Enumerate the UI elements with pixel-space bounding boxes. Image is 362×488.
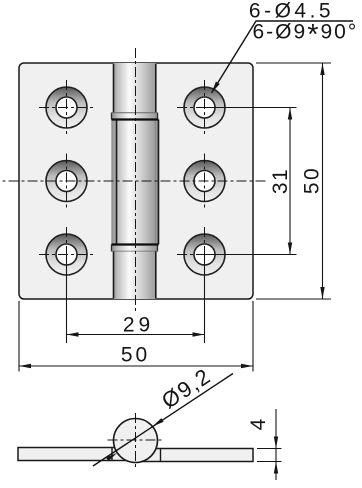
long middle row centerline — [2, 180, 267, 182]
svg-text:6-Ø9*90°: 6-Ø9*90° — [253, 19, 359, 51]
countersunk hole H4 (mid-right) — [184, 161, 225, 202]
svg-text:4: 4 — [247, 418, 270, 431]
dimension 31: extension line top — [205, 107, 297, 109]
barrel bottom collar — [112, 245, 158, 252]
svg-text:50: 50 — [301, 166, 324, 194]
dimension 50 right: extension line bottom — [256, 298, 331, 300]
hinge plate (top view, 50x50 leaf pair) — [19, 63, 253, 299]
hinge barrel bottom knuckle — [114, 252, 156, 300]
dimension 4: extension line bottom — [257, 461, 282, 463]
dimension 50 bottom: dimension line — [19, 365, 253, 367]
svg-text:6-Ø4.5: 6-Ø4.5 — [249, 0, 334, 23]
dimension 50 right: arrow down — [320, 287, 324, 299]
leader line for hole callout — [212, 21, 257, 93]
leader underline — [256, 20, 354, 22]
side view circle centerline vertical — [135, 413, 137, 468]
dimension 29: extension line right — [204, 255, 206, 343]
countersunk hole H6 (bottom-right) — [184, 234, 225, 275]
dimension 50 bottom: extension line left — [18, 301, 20, 372]
svg-text:31: 31 — [269, 168, 292, 194]
svg-text:50: 50 — [121, 344, 150, 367]
dimension 50 right: dimension line — [322, 63, 324, 299]
centerline horizontal H5 — [39, 254, 94, 256]
dimension 29: arrow left — [67, 332, 79, 336]
dimension 4: extension line top — [257, 448, 282, 450]
dimension 31: arrow up — [288, 108, 292, 120]
dimension 4: arrow up — [274, 462, 278, 474]
side view left leaf — [18, 448, 136, 461]
dimension 31: extension line bottom — [205, 254, 297, 256]
dimension 31: dimension line — [289, 108, 291, 255]
dimension 29: extension line left — [66, 255, 68, 343]
knuckle joint line lower — [112, 243, 159, 245]
centerline horizontal H6 — [177, 254, 232, 256]
middle knuckle (offset) — [112, 120, 159, 245]
leader arrowhead d9,2 upper — [153, 418, 164, 426]
barrel top collar — [112, 113, 158, 120]
svg-text:29: 29 — [123, 314, 154, 337]
centerline vertical H3 — [66, 154, 68, 210]
hinge barrel top knuckle — [114, 63, 156, 113]
dimension 50 bottom: extension line right — [252, 301, 254, 372]
centerline vertical H2 — [204, 80, 206, 136]
right leaf knuckle edge — [160, 449, 162, 462]
side view barrel circle — [114, 419, 158, 463]
countersunk hole H3 (mid-left) — [46, 161, 87, 202]
dimension 50 right: extension line top — [256, 62, 331, 64]
countersunk hole H2 (top-right) — [184, 87, 225, 128]
leader arrowhead d9,2 lower — [106, 453, 117, 461]
centerline horizontal H1 — [39, 107, 94, 109]
dimension 4: arrow down — [274, 437, 278, 449]
dimension 50 bottom: arrow right — [241, 364, 253, 368]
barrel axis centerline — [135, 48, 137, 311]
centerline horizontal H2 — [177, 107, 232, 109]
dimension 29: dimension line — [67, 334, 205, 336]
countersunk hole H5 (bottom-left) — [46, 234, 87, 275]
centerline vertical H6 — [204, 227, 206, 283]
centerline vertical H4 — [204, 154, 206, 210]
centerline vertical H5 — [66, 227, 68, 283]
dimension 29: arrow right — [193, 332, 205, 336]
svg-text:Ø9,2: Ø9,2 — [157, 363, 216, 414]
leader line d9,2 — [93, 374, 233, 467]
side view circle centerline horizontal — [108, 439, 164, 441]
knuckle joint line upper — [112, 118, 159, 120]
dimension 50 bottom: arrow left — [19, 364, 31, 368]
side view right leaf — [136, 449, 254, 462]
countersunk hole H1 (top-left) — [46, 87, 87, 128]
left leaf knuckle edge — [111, 448, 113, 461]
leader arrowhead — [212, 82, 220, 93]
dimension 50 right: arrow up — [320, 63, 324, 75]
centerline vertical H1 — [66, 80, 68, 136]
dimension 4: dimension line — [275, 409, 277, 480]
dimension 31: arrow down — [288, 243, 292, 255]
